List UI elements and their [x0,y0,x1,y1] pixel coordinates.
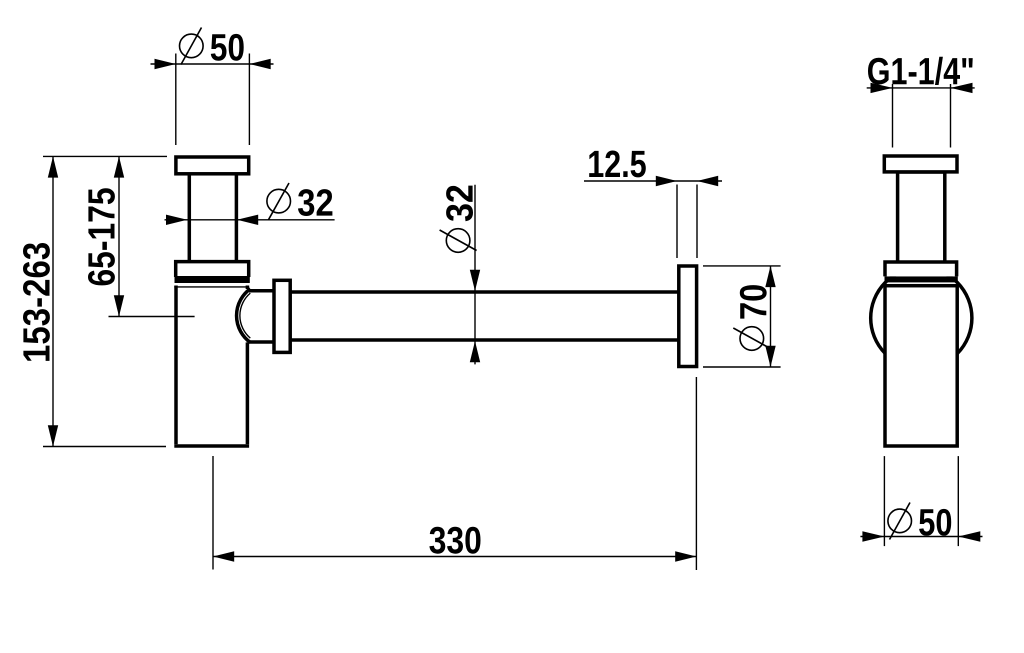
dim d50 top: diameter symbol [180,28,204,65]
left view: body top flange [176,262,249,277]
left view: outlet pipe top line [290,290,679,294]
left view: gasket band [175,276,250,283]
dim G1-1/4: right extension line [950,84,952,148]
dim 330: right arrow [675,551,696,561]
dim G1-1/4: value [868,57,973,85]
dim d50 right: left arrow [862,531,884,541]
dim G1-1/4: left arrow [871,83,893,93]
dim d32 pipe: dimension line [474,185,476,365]
dim d50 right: diameter symbol [888,503,912,540]
left view: ball joint outer arc [237,289,251,343]
dim 330: left arrow [213,551,234,561]
dim 65-175: top extension line [43,155,167,157]
left view: wall flange [679,266,697,367]
dim d50 right: value 50 [919,509,951,536]
dim 12.5: dimension line [584,180,722,182]
dim 153-263: value [23,243,50,361]
right view: top inlet flange [884,156,957,172]
right view: body top flange [885,262,957,276]
dim d70: bottom extension line [703,366,781,368]
left view: top inlet flange [176,157,249,174]
dim 330: dimension line [213,556,696,558]
dim d32 pipe: top arrow [470,270,480,291]
dim 153-263: dimension line [52,156,54,446]
dim d50 top: extension line right [248,54,250,146]
dim 153-263: bottom arrow [48,425,58,446]
right view: ball joint circle [871,267,972,368]
dim 65-175: bottom extension line [109,316,195,318]
dim d70: top extension line [703,265,781,267]
left view: outlet bottom edge [249,340,275,344]
dim d50 top: dimension line [151,63,274,65]
left view: compression nut [274,280,290,352]
dim 330: left extension line [212,456,214,570]
dim G1-1/4: left extension line [892,84,894,148]
dim d70: label [733,285,770,350]
left view: outlet pipe bottom line [290,338,679,342]
dim d32 pipe: bottom arrow [470,341,480,362]
dim 65-175: top arrow [114,156,124,177]
right view: inlet tube [898,172,945,264]
dim 12.5: extension line left [676,185,678,259]
dim d70: bottom arrow [765,346,775,367]
dim 12.5: value [589,151,646,178]
dim d70: top arrow [765,266,775,287]
dim d32 tube: left arrow [166,215,187,225]
left view: ball joint inner arc [240,293,250,338]
dim d70: dimension line [770,266,772,367]
dim d50 right: left extension line [883,456,885,546]
dim 65-175: value [88,188,115,285]
dim G1-1/4: right arrow [951,83,973,93]
left view: trap body fill [174,285,249,447]
dim 12.5: left arrow [656,176,677,186]
dim d50 top: right arrow [249,59,270,69]
left view: vertical inlet tube [189,172,236,264]
dim 12.5: extension line right [696,185,698,259]
dim d32 pipe: label [440,186,477,253]
dim d32 tube: right arrow [237,215,258,225]
right view: trap body [885,286,957,446]
dim 330: value [429,527,480,554]
dim d50 right: dimension line [860,536,982,538]
dim 330: right extension line [695,377,697,570]
dim d32 tube: diameter symbol [267,183,291,220]
right view: gasket band [885,276,958,282]
dim d50 top: extension line left [175,54,177,146]
left view: trap body outline [174,286,249,288]
dim 65-175: dimension line [118,156,120,316]
dim 12.5: right arrow [697,176,718,186]
dim d32 tube: value 32 [298,189,332,216]
dim d50 right: right extension line [957,456,959,546]
dim 153-263: top arrow [48,156,58,177]
left view: outlet top edge [249,289,275,293]
dim d50 top: value 50 [211,34,244,61]
dim 153-263: bottom extension line [43,446,166,448]
dim d50 top: left arrow [155,59,176,69]
dim 65-175: bottom arrow [114,295,124,316]
dim d32 tube: dimension line [165,219,335,221]
dim G1-1/4: dimension line [867,87,975,89]
dim d50 right: right arrow [958,531,980,541]
